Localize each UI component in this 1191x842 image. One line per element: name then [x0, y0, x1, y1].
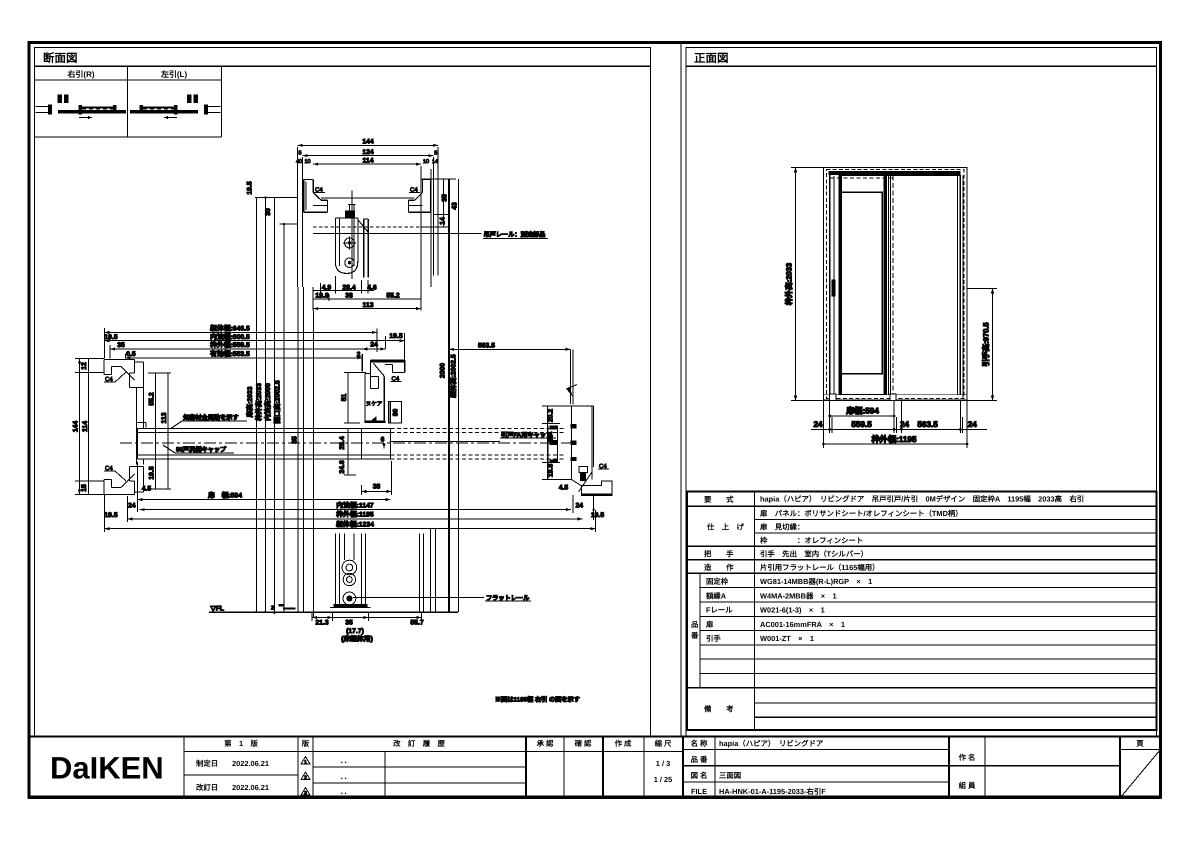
svg-text:40: 40	[296, 159, 302, 165]
svg-text:2022.06.21: 2022.06.21	[232, 759, 269, 768]
svg-text:吊戸レール：別途部品: 吊戸レール：別途部品	[484, 231, 546, 239]
top section bottom dims row2	[313, 287, 421, 311]
svg-text:35: 35	[117, 342, 125, 349]
head frame right profile	[408, 180, 430, 213]
svg-text:19.5: 19.5	[104, 334, 117, 341]
C4 label right jamb	[598, 463, 609, 470]
svg-text:縮 尺: 縮 尺	[655, 739, 672, 748]
svg-text:引手高:970.5: 引手高:970.5	[982, 322, 991, 367]
svg-text:ヌケア: ヌケア	[366, 401, 383, 408]
svg-text:制定日: 制定日	[196, 759, 218, 768]
center frame door stop	[389, 402, 402, 423]
svg-text:頁: 頁	[1136, 739, 1144, 748]
svg-text:55.2: 55.2	[386, 292, 399, 299]
svg-text:4.5: 4.5	[142, 486, 152, 493]
svg-text:片引用フラットレール（1165幅用）: 片引用フラットレール（1165幅用）	[760, 563, 880, 572]
svg-text:38: 38	[548, 434, 555, 442]
svg-text:19.5: 19.5	[104, 512, 117, 519]
svg-text:hapia（ハピア） リビングドア: hapia（ハピア） リビングドア	[719, 739, 824, 748]
svg-text:品 番: 品 番	[691, 755, 708, 764]
svg-text:124: 124	[362, 149, 374, 156]
svg-text:24: 24	[813, 420, 823, 429]
svg-text:19.8: 19.8	[315, 292, 328, 299]
door design panel	[841, 192, 883, 373]
door handle	[832, 280, 836, 297]
svg-text:14: 14	[432, 159, 438, 165]
section view title 断面図	[43, 52, 78, 65]
panel divider line	[680, 44, 682, 737]
frame height label 2033	[785, 263, 794, 305]
dim 144	[298, 139, 438, 147]
svg-text:28.4: 28.4	[339, 436, 346, 449]
svg-text:563.5: 563.5	[917, 420, 938, 429]
revision triangles	[301, 757, 310, 797]
svg-text:扉幅:594: 扉幅:594	[845, 405, 879, 415]
svg-text:．．: ．．	[340, 756, 351, 765]
svg-text:15: 15	[81, 484, 88, 492]
svg-text:19.5: 19.5	[389, 333, 402, 340]
spec table contents	[760, 495, 1084, 644]
svg-text:1: 1	[304, 760, 307, 766]
wall line left pair	[298, 147, 303, 287]
top section bottom dims row1	[313, 276, 377, 294]
svg-text:品: 品	[691, 620, 698, 629]
svg-text:把 手: 把 手	[704, 550, 734, 559]
svg-text:43: 43	[452, 202, 459, 210]
svg-text:24: 24	[900, 420, 910, 429]
mini plan right-sliding	[36, 95, 127, 120]
door band dashed continuation	[120, 429, 572, 459]
svg-text:名 称: 名 称	[691, 739, 708, 748]
right jamb profile (pocket side)	[572, 406, 594, 480]
svg-text:113: 113	[161, 412, 168, 423]
svg-text:1 / 25: 1 / 25	[654, 775, 673, 784]
svg-text:断面図: 断面図	[43, 52, 78, 65]
svg-text:(17.7): (17.7)	[346, 628, 364, 635]
svg-text:躯体幅:646.5: 躯体幅:646.5	[209, 325, 250, 333]
svg-text:W001-ZT × 1: W001-ZT × 1	[760, 634, 814, 643]
svg-text:114: 114	[363, 157, 374, 164]
svg-text:HA-HNK-01-A-1195-2033-右引F: HA-HNK-01-A-1195-2033-右引F	[719, 787, 826, 796]
svg-text:造 作: 造 作	[704, 563, 734, 572]
hanger bracket	[335, 218, 358, 274]
opening top line	[887, 175, 961, 177]
soffit dashed line	[313, 226, 421, 228]
C4 label left head	[314, 187, 325, 194]
top stacked width dims	[104, 325, 404, 360]
right small dims of top section	[421, 179, 459, 227]
rail leader text	[484, 231, 546, 239]
svg-text:4.5: 4.5	[559, 485, 569, 492]
C4 label left jamb bottom	[104, 465, 126, 481]
svg-text:内法高:2000: 内法高:2000	[264, 383, 272, 421]
dim 563.5	[449, 343, 571, 405]
svg-text:38: 38	[345, 292, 353, 299]
svg-text:WG81-14MBB器(R-L)RGP × 1: WG81-14MBB器(R-L)RGP × 1	[760, 577, 872, 586]
svg-text:5: 5	[298, 151, 301, 157]
spec table row labels	[690, 495, 745, 714]
floor rail channel verticals	[336, 534, 366, 605]
svg-text:20.2: 20.2	[548, 409, 555, 422]
flat rail cross-section	[330, 604, 371, 607]
svg-text:AC001-16mmFRA × 1: AC001-16mmFRA × 1	[760, 620, 845, 629]
svg-text:35: 35	[345, 620, 353, 627]
rotated height labels group (plan area)	[246, 198, 457, 613]
svg-text:W021-6(1-3) × 1: W021-6(1-3) × 1	[760, 606, 825, 615]
hanger center line	[351, 191, 353, 280]
right jamb groove blocks	[548, 424, 577, 480]
svg-text:19.8: 19.8	[149, 466, 156, 479]
svg-text:80: 80	[393, 409, 400, 417]
svg-text:正面図: 正面図	[694, 52, 729, 65]
bottom dimensions	[811, 401, 987, 449]
section cut arrow right jamb	[566, 349, 577, 404]
svg-text:躯体高:2002.5: 躯体高:2002.5	[449, 354, 457, 399]
svg-text:第 1 版: 第 1 版	[224, 739, 258, 748]
svg-text:24.6: 24.6	[339, 460, 346, 473]
svg-text:10: 10	[423, 159, 429, 165]
top section dim 113	[313, 302, 421, 310]
door frame outer	[824, 168, 968, 401]
svg-text:扉 幅:594: 扉 幅:594	[207, 492, 242, 500]
svg-text:枠外幅:559.5: 枠外幅:559.5	[210, 341, 250, 349]
svg-text:2: 2	[357, 352, 361, 359]
svg-text:4.6: 4.6	[367, 284, 377, 291]
bottom line	[824, 395, 968, 401]
svg-text:14: 14	[440, 217, 447, 225]
svg-text:組 員: 組 員	[959, 781, 976, 790]
title block texts	[196, 739, 1144, 796]
svg-text:19.5: 19.5	[591, 512, 604, 519]
svg-text:24: 24	[128, 502, 136, 509]
svg-text:扉: 扉	[706, 620, 714, 629]
svg-text:144: 144	[73, 421, 80, 433]
svg-text:改 訂 履 歴: 改 訂 履 歴	[393, 739, 445, 748]
svg-text:枠外幅:1195: 枠外幅:1195	[336, 511, 374, 519]
left panel border (dansetsu panel)	[35, 48, 651, 737]
svg-text:113: 113	[363, 302, 374, 309]
svg-text:改訂日: 改訂日	[196, 783, 218, 792]
svg-text:▽FL: ▽FL	[210, 606, 225, 613]
DAIKEN logo	[50, 751, 164, 786]
svg-text:2000: 2000	[440, 363, 447, 378]
svg-text:24: 24	[576, 502, 584, 509]
left jamb board double line	[136, 387, 146, 464]
left jamb inner line	[830, 175, 834, 395]
svg-text:55.7: 55.7	[410, 620, 423, 627]
svg-text:35: 35	[442, 194, 449, 202]
pocket edge dashed lines	[830, 176, 896, 401]
sliding door cap leader right	[390, 431, 557, 442]
svg-text:2022.06.21: 2022.06.21	[232, 783, 269, 792]
svg-text:版: 版	[302, 739, 310, 748]
svg-text:144: 144	[362, 139, 374, 146]
svg-text:枠 ：オレフィンシート: 枠 ：オレフィンシート	[760, 536, 863, 545]
door leaf	[831, 176, 895, 395]
svg-text:24: 24	[370, 342, 378, 349]
flat rail leader	[353, 595, 531, 602]
svg-text:引手 先出 室内（Tシルバー）: 引手 先出 室内（Tシルバー）	[760, 550, 868, 559]
wall base detail	[255, 604, 295, 614]
door leaf plan band	[137, 429, 390, 459]
left vertical dims 144/114	[73, 359, 105, 495]
svg-text:DaIKEN: DaIKEN	[50, 751, 164, 786]
sliding direction sub-table	[35, 66, 222, 137]
svg-text:19.5: 19.5	[247, 181, 254, 194]
center frame dims	[339, 333, 403, 495]
svg-text:確 認: 確 認	[575, 739, 592, 748]
left jamb profile plan top piece	[104, 359, 143, 387]
right height dimension 970.5	[967, 289, 997, 401]
front view title 正面図	[694, 52, 729, 65]
svg-text:6: 6	[381, 437, 385, 444]
svg-text:．．: ．．	[340, 787, 351, 796]
svg-text:0.5: 0.5	[126, 351, 136, 358]
svg-text:三面図: 三面図	[719, 771, 741, 780]
svg-text:額縁A: 額縁A	[705, 591, 727, 600]
svg-text:気密材全周貼を示す: 気密材全周貼を示す	[183, 414, 239, 422]
svg-text:hapia（ハピア） リビングドア 吊戸引戸/片引 0Mデザ: hapia（ハピア） リビングドア 吊戸引戸/片引 0Mデザイン 固定枠A 11…	[760, 495, 1084, 504]
svg-text:2: 2	[271, 606, 274, 612]
svg-text:内法幅:1147: 内法幅:1147	[336, 501, 374, 509]
svg-text:備 考: 備 考	[704, 705, 734, 714]
right jamb bottom boot	[572, 466, 613, 495]
svg-text:50戸尻側キャップ: 50戸尻側キャップ	[176, 446, 227, 454]
svg-text:枠外高:2033: 枠外高:2033	[255, 383, 263, 421]
C4 label center frame	[391, 376, 402, 383]
svg-text:内法幅:600.5: 内法幅:600.5	[210, 333, 250, 341]
FL marker	[210, 606, 225, 613]
svg-text:2: 2	[304, 775, 307, 781]
svg-text:図 名: 図 名	[691, 771, 708, 780]
link dim between sections left	[247, 181, 298, 225]
svg-text:559.5: 559.5	[851, 420, 872, 429]
C4 label left jamb top	[104, 372, 126, 383]
svg-text:右引(R): 右引(R)	[66, 70, 94, 79]
rail leader line	[313, 234, 548, 239]
svg-text:563.5: 563.5	[478, 343, 495, 350]
svg-text:引手: 引手	[706, 634, 721, 643]
svg-text:開口高:2002.5: 開口高:2002.5	[274, 380, 282, 424]
svg-text:番: 番	[690, 631, 699, 640]
svg-text:21.3: 21.3	[315, 620, 328, 627]
bottom section dims	[312, 612, 424, 643]
door height label 970.5	[982, 322, 991, 367]
header right-sliding label	[66, 70, 94, 79]
center frame profile	[361, 354, 363, 371]
svg-text:承 認: 承 認	[537, 739, 554, 748]
svg-text:4.9: 4.9	[322, 284, 332, 291]
head frame left profile	[304, 180, 328, 213]
svg-text:枠外幅:1195: 枠外幅:1195	[871, 434, 916, 444]
svg-text:作 名: 作 名	[959, 753, 976, 762]
right panel border (front view panel)	[686, 48, 1157, 737]
svg-text:※図は1195幅 右引 の図を示す: ※図は1195幅 右引 の図を示す	[495, 696, 580, 704]
svg-text:55.2: 55.2	[149, 392, 156, 405]
svg-text:扉 パネル：ポリサンドシート/オレフィンシート（TMD柄）: 扉 パネル：ポリサンドシート/オレフィンシート（TMD柄）	[760, 509, 963, 518]
svg-text:W4MA-2MBB器 × 1: W4MA-2MBB器 × 1	[760, 591, 837, 600]
header left-sliding label	[160, 70, 188, 79]
svg-text:3: 3	[304, 791, 307, 797]
dim 124	[298, 149, 437, 157]
svg-text:Fレール: Fレール	[706, 606, 733, 615]
C4 label right head	[409, 187, 420, 194]
svg-text:1 / 3: 1 / 3	[656, 759, 670, 768]
svg-text:(床躯体用): (床躯体用)	[341, 635, 373, 643]
svg-text:枠外高:2033: 枠外高:2033	[785, 263, 794, 305]
svg-text:左引(L): 左引(L)	[160, 70, 188, 79]
svg-text:28.4: 28.4	[342, 284, 355, 291]
svg-text:38: 38	[373, 484, 381, 491]
mini plan left-sliding	[130, 95, 221, 120]
left jamb profile plan bottom piece	[104, 467, 143, 495]
airtight material leader	[170, 414, 247, 430]
front view bottom dim texts	[813, 405, 977, 444]
dim 114	[296, 157, 438, 165]
svg-text:12: 12	[81, 362, 88, 370]
svg-text:躯体幅:1234: 躯体幅:1234	[335, 520, 374, 528]
svg-text:．．: ．．	[340, 772, 351, 781]
svg-text:10: 10	[304, 159, 310, 165]
svg-text:仕 上 げ: 仕 上 げ	[706, 523, 745, 532]
door panel edge lines in rail channel	[345, 534, 355, 560]
hanger mount	[346, 205, 356, 218]
head rail dark band	[829, 171, 961, 175]
svg-text:扉 見切縁：: 扉 見切縁：	[760, 523, 804, 532]
svg-text:要 式: 要 式	[704, 495, 734, 504]
svg-text:5: 5	[434, 151, 437, 157]
svg-text:19.8: 19.8	[548, 464, 555, 477]
door top (hung door)	[358, 219, 368, 278]
mid vertical dims 55.2 113 19.8	[142, 373, 171, 493]
svg-text:有効幅:553.5: 有効幅:553.5	[210, 350, 250, 358]
svg-text:114: 114	[82, 421, 89, 432]
svg-text:51: 51	[341, 394, 348, 402]
center frame profile outline	[364, 359, 404, 423]
svg-text:24: 24	[968, 420, 978, 429]
50 cap leader	[163, 445, 234, 454]
left height dimension 2033	[791, 168, 824, 401]
svg-text:作 成: 作 成	[615, 739, 632, 748]
head soffit line	[321, 197, 415, 199]
note text	[495, 696, 580, 704]
hanger rollers	[343, 236, 356, 267]
svg-text:扉高:2033: 扉高:2033	[246, 386, 254, 418]
wall line right group	[421, 147, 438, 287]
right jamb dims	[542, 406, 595, 520]
floor line	[209, 611, 458, 613]
svg-text:FILE: FILE	[691, 787, 707, 796]
svg-text:固定枠: 固定枠	[706, 577, 729, 586]
right jamb inner line	[958, 175, 964, 398]
bottom door rollers	[342, 560, 357, 605]
